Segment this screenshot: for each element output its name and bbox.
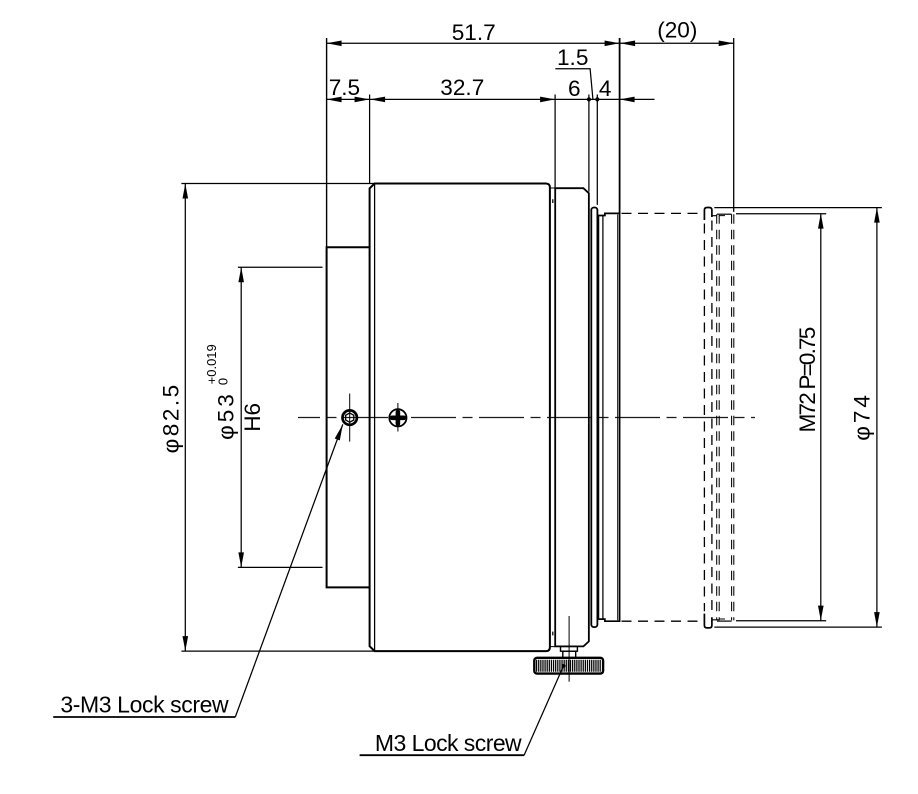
svg-text:6: 6 <box>568 76 581 101</box>
label M3 underline <box>360 754 524 756</box>
phi74 collar ring (solid) <box>591 208 597 628</box>
svg-text:51.7: 51.7 <box>452 20 496 45</box>
phi82.5 extension lines <box>181 184 374 652</box>
main body phi82.5 outline <box>370 184 550 652</box>
small tick edge near groove <box>552 199 554 635</box>
svg-text:φ53: φ53 <box>214 391 239 440</box>
label 3-M3 underline <box>53 716 235 718</box>
phi82.5 dimension line <box>184 184 186 652</box>
extension line phantom end x=733.7 <box>733 38 735 212</box>
screw S1 vertical center line <box>349 394 351 442</box>
leader to screw S1 <box>235 424 342 717</box>
rear spigot flange phi60 <box>327 247 370 587</box>
svg-text:φ74: φ74 <box>849 392 874 441</box>
extension line rear face x=326.6 <box>326 38 328 247</box>
phantom thread major line bottom (dashed) <box>622 620 705 622</box>
arrowheads 7.5 <box>327 97 342 103</box>
extension line body rear x=369.6 <box>369 95 371 184</box>
knurl hatching <box>537 660 601 672</box>
body chamfer edge line <box>374 184 376 651</box>
phantom rim bottom tab (solid) <box>704 614 712 628</box>
front ring section phi80.9 <box>555 188 589 646</box>
extension line ring front x=588.9 <box>588 95 590 192</box>
groove step edges <box>550 188 555 647</box>
screw S2 vertical center line <box>397 403 399 432</box>
phi74 extension lines <box>714 208 882 627</box>
dimension line 51.7 and (20) <box>327 42 734 44</box>
svg-text:1.5: 1.5 <box>557 45 588 70</box>
extension line nose face x=619.6 <box>619 38 621 213</box>
phi53 extension lines <box>238 267 323 567</box>
lock screw collar <box>561 646 578 651</box>
lock screw axis line <box>568 616 570 682</box>
phantom far wall dashed pair <box>732 214 734 620</box>
phantom thread middle dashed pair <box>717 214 720 620</box>
dot terminators for 1.5 <box>587 97 591 101</box>
dimension chain line 7.5/32.7/6/1.5/4 <box>327 98 655 100</box>
phantom thread major line top (dashed) <box>622 212 705 214</box>
screw S1 outer ring (3-M3 lock screw) <box>343 410 357 424</box>
M72 extension lines <box>736 214 826 621</box>
svg-text:0: 0 <box>215 378 230 385</box>
arrowhead 4 (external) <box>620 97 635 103</box>
svg-text:3-M3 Lock screw: 3-M3 Lock screw <box>60 692 229 718</box>
1.5 label underline and leader <box>555 69 593 99</box>
extension line body front x=555.1 <box>554 95 556 189</box>
svg-text:M72 P=0.75: M72 P=0.75 <box>795 327 820 432</box>
screw S2 cross <box>392 412 404 424</box>
nose face chamfer line <box>617 215 619 621</box>
lock screw knurled head <box>534 658 603 674</box>
svg-text:φ82.5: φ82.5 <box>158 382 183 453</box>
svg-text:32.7: 32.7 <box>440 75 484 100</box>
arrowheads 51.7 <box>327 41 342 47</box>
phantom inner dashed edges <box>720 216 729 619</box>
thread runout line <box>602 216 604 620</box>
leader to knurled screw <box>524 666 563 755</box>
M72 threaded nose section <box>598 213 619 621</box>
arrowheads M72 <box>818 214 824 229</box>
svg-text:H6: H6 <box>240 403 265 432</box>
phi53 dimension line <box>240 267 242 567</box>
phantom rim top tab (solid) <box>704 208 712 221</box>
svg-text:7.5: 7.5 <box>329 75 360 100</box>
svg-text:M3 Lock screw: M3 Lock screw <box>375 730 522 756</box>
arrowheads phi74 <box>874 208 880 223</box>
svg-text:(20): (20) <box>657 18 697 43</box>
arrowheads 32.7 <box>370 97 385 103</box>
screw S1 hex socket <box>346 413 354 422</box>
M72 dimension line <box>820 214 822 621</box>
arrowheads phi82.5 <box>183 184 189 199</box>
phi74 dimension line <box>876 208 878 627</box>
arrowhead leader 3-M3 <box>335 424 343 440</box>
phantom end edges (solid thin) <box>717 214 732 621</box>
extension line collar front x=597.3 <box>596 95 598 205</box>
arrowheads phi53 <box>238 267 244 282</box>
screw S2 circle (cross recess screw) <box>389 409 406 426</box>
horizontal center line <box>298 417 755 419</box>
svg-text:4: 4 <box>599 76 612 101</box>
phantom rim dashed sides <box>704 221 712 615</box>
lock screw neck <box>563 651 576 658</box>
phantom tab connector edges <box>712 216 719 620</box>
leader dot on knurled head <box>562 664 566 668</box>
arrowheads (20) <box>620 41 635 47</box>
